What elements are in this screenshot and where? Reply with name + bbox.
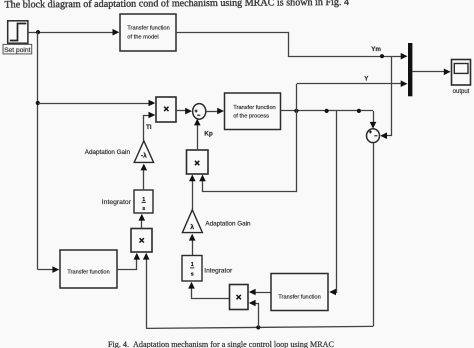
svg-text:Set point: Set point	[4, 47, 31, 54]
svg-text:Adaptation Gain: Adaptation Gain	[205, 220, 251, 227]
svg-text:The block diagram of adaptatio: The block diagram of adaptation cond of …	[4, 0, 349, 11]
svg-text:Transfer function: Transfer function	[127, 25, 169, 31]
svg-text:1: 1	[142, 197, 145, 203]
svg-text:Transfer function: Transfer function	[67, 269, 109, 275]
svg-text:Adaptation Gain: Adaptation Gain	[85, 149, 131, 156]
svg-text:Y: Y	[364, 76, 369, 83]
svg-text:Integrator: Integrator	[204, 267, 233, 274]
svg-text:of the model: of the model	[127, 35, 158, 41]
svg-text:Integrator: Integrator	[102, 199, 132, 206]
svg-text:-λ: -λ	[141, 152, 147, 160]
svg-text:s: s	[191, 271, 194, 277]
svg-text:Ti: Ti	[146, 124, 152, 131]
svg-text:of the process: of the process	[233, 114, 269, 120]
svg-text:s: s	[142, 206, 145, 212]
svg-text:Ym: Ym	[371, 46, 381, 53]
svg-text:Fig. 4. Adaptation mechanism: Fig. 4. Adaptation mechanism for a singl…	[108, 340, 334, 348]
svg-text:Kp: Kp	[204, 131, 213, 138]
svg-text:Transfer function: Transfer function	[233, 105, 275, 111]
svg-text:1: 1	[191, 262, 194, 268]
svg-text:λ: λ	[190, 223, 194, 231]
svg-text:Transfer function: Transfer function	[278, 294, 320, 300]
svg-text:output: output	[453, 89, 470, 95]
